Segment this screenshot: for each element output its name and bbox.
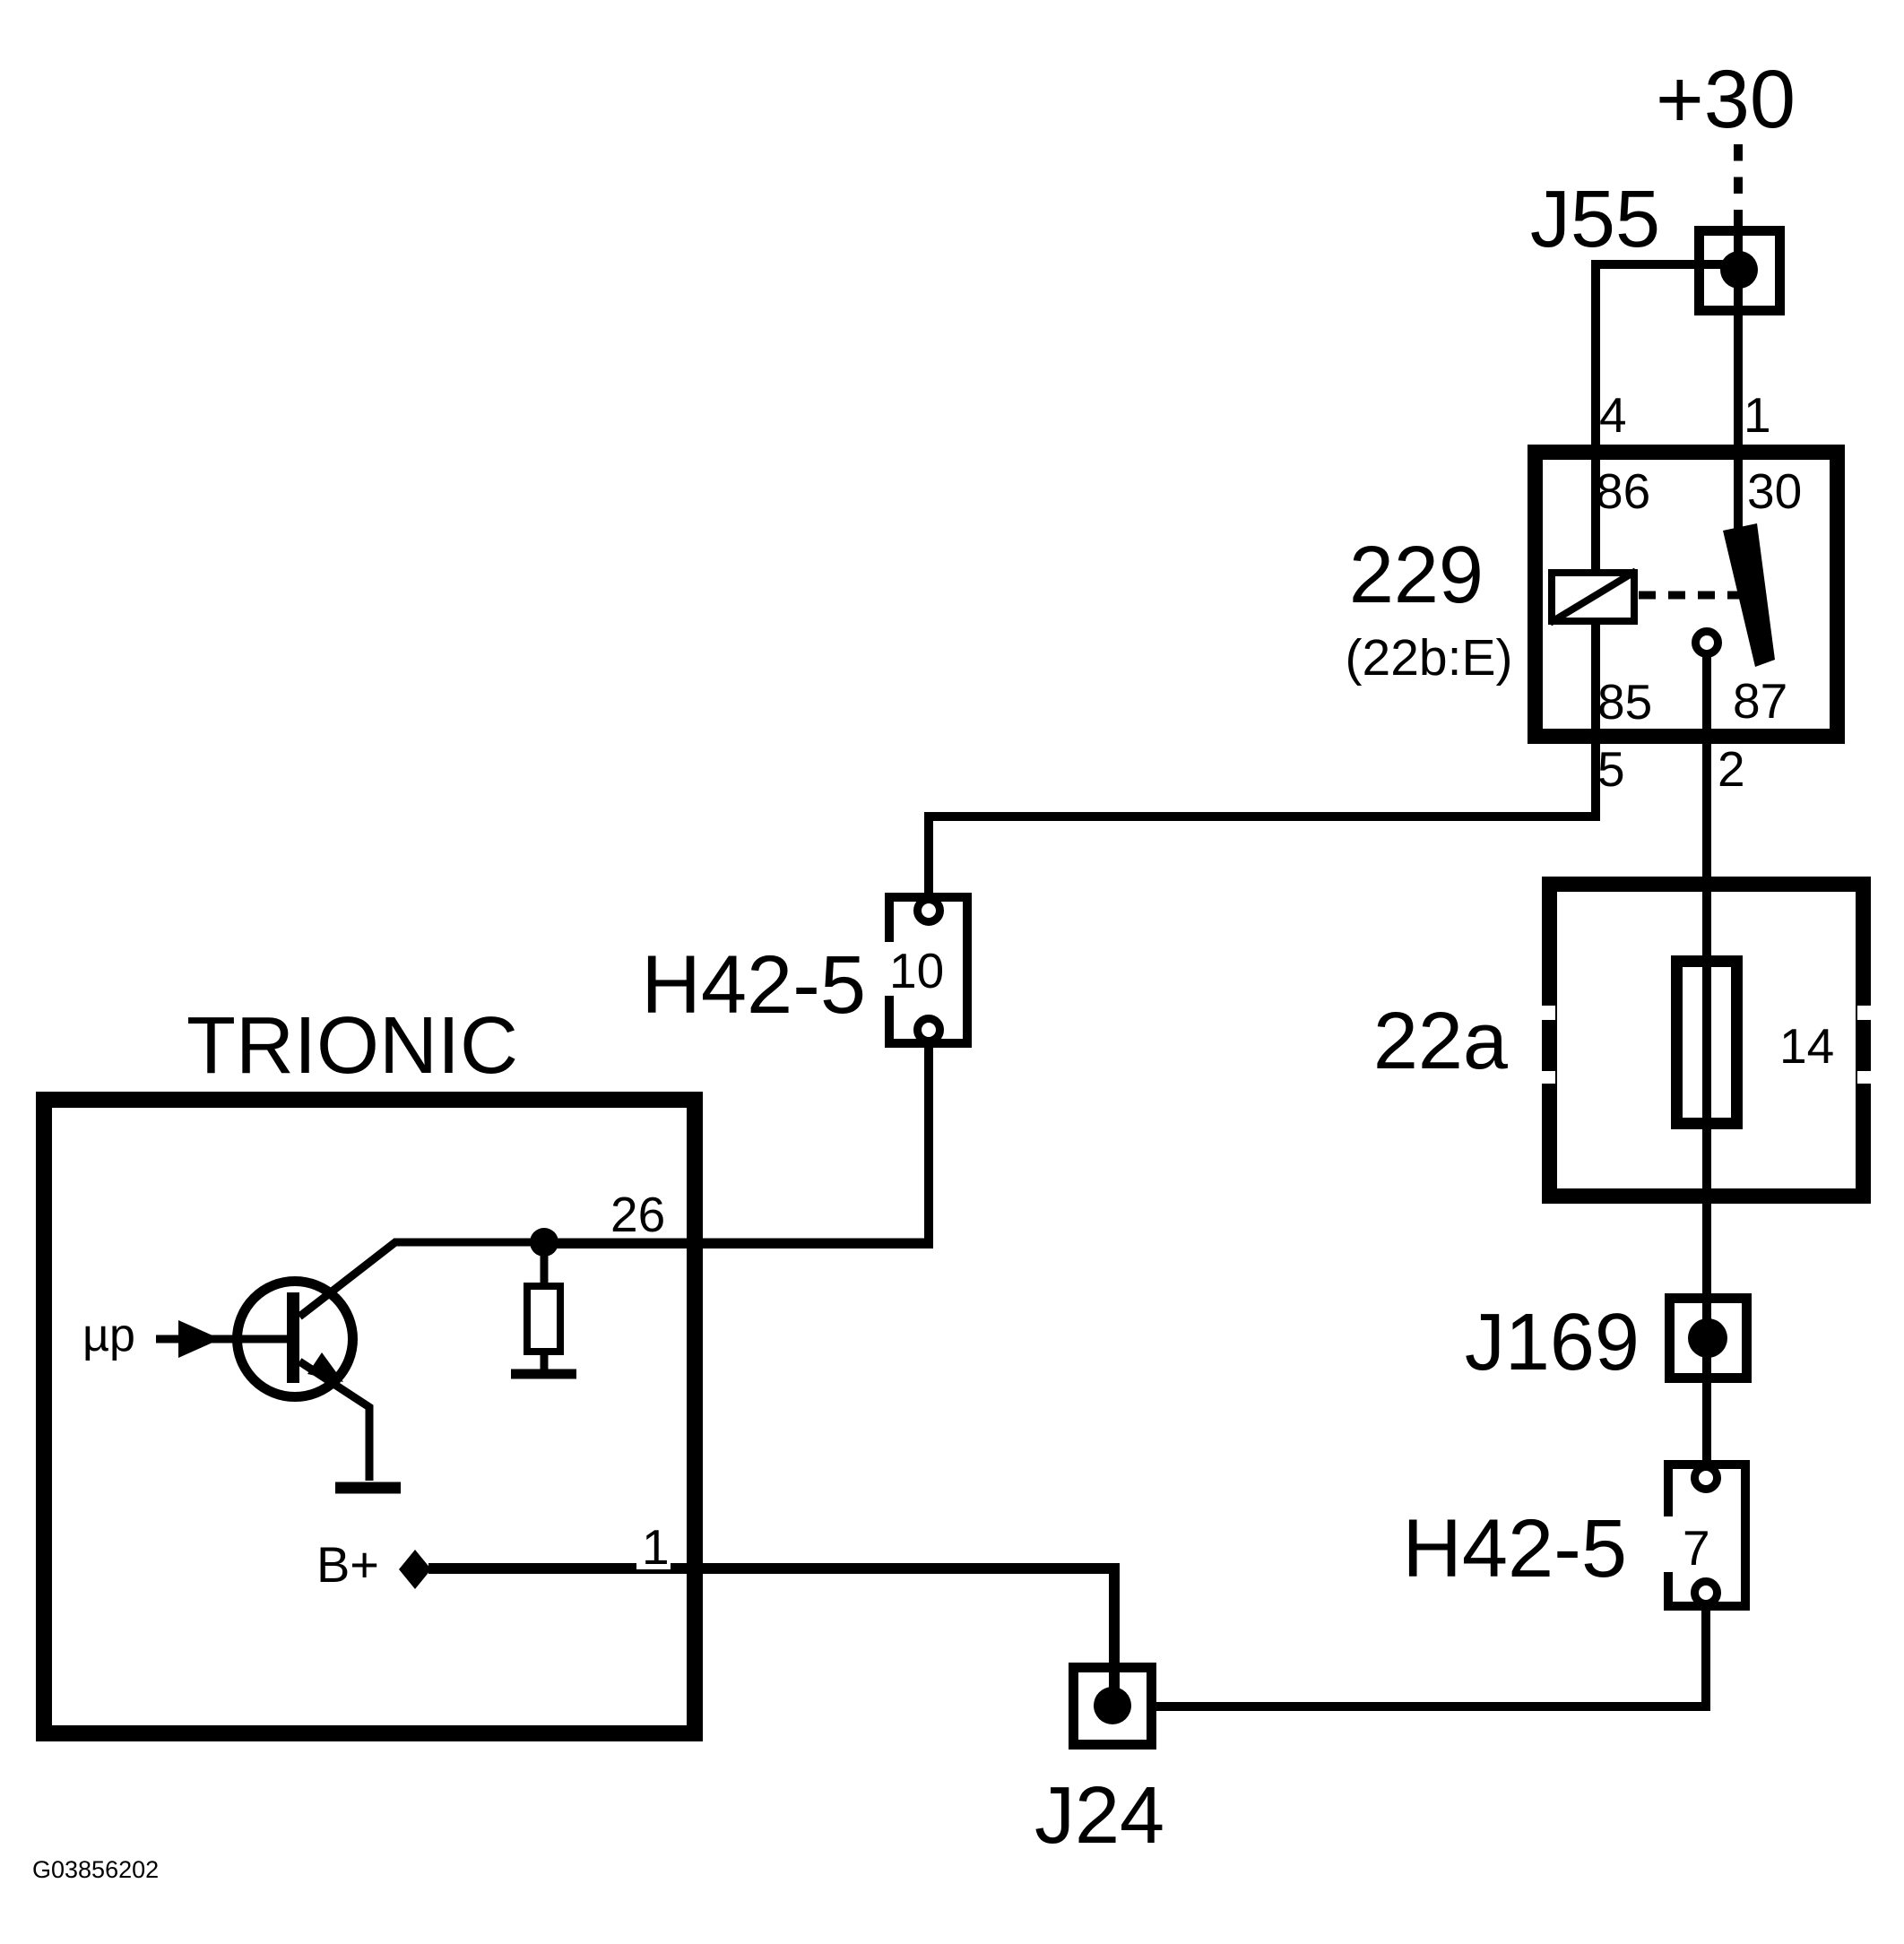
transistor emitter wire: [299, 1361, 369, 1481]
svg-text:22a: 22a: [1373, 997, 1509, 1086]
ground (resistor): [511, 1369, 576, 1379]
relay 229 box: [1536, 453, 1838, 737]
svg-text:87: 87: [1733, 673, 1787, 729]
relay contact 87: [1696, 632, 1718, 654]
svg-text:14: 14: [1779, 1018, 1834, 1074]
svg-text:(22b:E): (22b:E): [1346, 629, 1513, 687]
relay coil: [1552, 573, 1634, 621]
wire relay pin 85 to H42-5 pin 10: [929, 625, 1596, 897]
svg-text:+30: +30: [1656, 54, 1796, 145]
wire H42-5 pin 10 to TRIONIC pin 26: [549, 1044, 929, 1244]
svg-text:30: 30: [1747, 463, 1802, 519]
svg-text:J55: J55: [1530, 175, 1660, 264]
svg-text:85: 85: [1597, 674, 1652, 730]
transistor collector wire to pin 26: [299, 1242, 929, 1317]
svg-text:7: 7: [1683, 1520, 1710, 1576]
µp input arrow: [156, 1335, 293, 1344]
fuse element 14: [1677, 962, 1737, 1124]
connector H42-5 pin 7: [1668, 1464, 1745, 1606]
connector J24: [1074, 1668, 1152, 1745]
svg-text:86: 86: [1596, 463, 1650, 519]
svg-text:J169: J169: [1465, 1298, 1640, 1387]
wire TRIONIC pin 1 to J24: [428, 1568, 1114, 1707]
ECU TRIONIC box: [44, 1100, 695, 1733]
wire +30 dashed feed: [1734, 144, 1743, 227]
svg-text:5: 5: [1597, 741, 1625, 797]
svg-text:26: 26: [610, 1187, 665, 1242]
svg-text:1: 1: [642, 1519, 670, 1575]
connector J169: [1670, 1299, 1747, 1378]
connector H42-5 pin 10: [889, 897, 967, 1043]
svg-text:J24: J24: [1034, 1771, 1164, 1861]
wire J55 to relay pin 30: [1734, 226, 1743, 538]
transistor Q1 circle: [238, 1282, 353, 1397]
svg-text:2: 2: [1718, 741, 1745, 797]
connector J55: [1700, 231, 1780, 311]
svg-text:H42-5: H42-5: [1402, 1503, 1627, 1594]
transistor base bar: [287, 1292, 299, 1383]
wire J55 to relay pin 86: [1596, 264, 1737, 571]
svg-text:G03856202: G03856202: [32, 1856, 159, 1883]
relay switch blade: [1723, 523, 1775, 667]
svg-text:TRIONIC: TRIONIC: [186, 1001, 518, 1091]
svg-text:10: 10: [889, 943, 944, 998]
ground (emitter): [335, 1482, 401, 1494]
wire relay pin 87 through fuse 22a to J169: [1702, 654, 1711, 1472]
svg-text:1: 1: [1744, 387, 1771, 443]
B+ terminal diamond: [399, 1550, 431, 1589]
dashed actuation link: [1639, 592, 1743, 600]
svg-text:H42-5: H42-5: [641, 939, 866, 1031]
resistor: [541, 1242, 549, 1286]
wire J24 to H42-5 pin 7: [1156, 1609, 1706, 1706]
fuse box 22a: [1550, 885, 1864, 1197]
svg-text:µp: µp: [82, 1309, 135, 1361]
svg-text:4: 4: [1599, 387, 1627, 443]
svg-text:B+: B+: [316, 1536, 379, 1593]
node pin 26 junction: [530, 1228, 558, 1257]
svg-text:229: 229: [1349, 531, 1484, 620]
